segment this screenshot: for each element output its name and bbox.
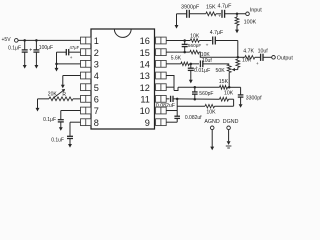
wire pin 11 xyxy=(166,98,169,100)
svg-text:Output: Output xyxy=(277,56,294,62)
svg-text:10K: 10K xyxy=(224,91,234,97)
svg-text:Input: Input xyxy=(250,8,262,14)
wire pin 12 xyxy=(166,86,174,88)
svg-text:0.1μF: 0.1μF xyxy=(8,46,21,52)
vertical from Y2 down through 0.082uf to pin 9 xyxy=(176,99,178,116)
svg-text:5: 5 xyxy=(94,83,99,93)
svg-text:+: + xyxy=(70,55,73,60)
capacitor 10uf pin14 row xyxy=(199,60,201,67)
wire pin 9 xyxy=(166,121,177,123)
svg-text:DGND: DGND xyxy=(223,119,239,125)
pot wiper arrow xyxy=(53,91,64,99)
row Y3 wire xyxy=(177,105,205,107)
svg-text:4.7μF: 4.7μF xyxy=(210,30,223,36)
wire pin 16 xyxy=(166,40,190,42)
svg-text:+: + xyxy=(218,15,221,20)
wire pin 15 xyxy=(166,51,190,53)
svg-text:13: 13 xyxy=(140,71,150,81)
svg-text:10uf: 10uf xyxy=(202,58,212,64)
wire 10K to 4.7uF xyxy=(199,40,211,42)
resistor 15K row Y1 xyxy=(220,85,228,89)
node dot pin3 xyxy=(55,63,58,65)
wire 3900pF to 15K xyxy=(189,13,206,15)
wire 4.7uF to corner down to output rail xyxy=(215,40,238,42)
wire +5V rail to pin 1 xyxy=(18,39,80,41)
svg-text:3900pF: 3900pF xyxy=(181,4,200,10)
node dot 5.6K/0.01uF xyxy=(190,63,193,65)
resistor 10K row Y3 xyxy=(205,104,215,108)
ground arrow under 100uF xyxy=(35,64,37,66)
wire node to pin 3 xyxy=(57,63,81,65)
svg-text:+: + xyxy=(29,47,32,53)
node dot row Y2 left xyxy=(173,98,177,100)
resistor 10K vertical below output node xyxy=(236,59,240,67)
capacitor 0.1uF on pin 7 xyxy=(61,110,81,112)
capacitor 0.1uF (supply) xyxy=(24,40,26,50)
resistor 4.7K output row xyxy=(238,56,245,58)
wire pin15 jog down to output rail xyxy=(199,52,238,57)
resistor 100K vertical xyxy=(236,14,238,17)
svg-text:7: 7 xyxy=(94,106,99,116)
svg-text:560pF: 560pF xyxy=(199,91,213,97)
potentiometer 50K vertical xyxy=(227,65,231,73)
node dot pin16/560pF xyxy=(183,39,186,42)
wire to Output terminal xyxy=(263,56,272,58)
wire 10uf to 50K pot top xyxy=(203,63,229,65)
wire pin 14 xyxy=(166,63,181,65)
capacitor 0.1uF on pin 8 xyxy=(70,121,81,123)
capacitor 4.7uF input top xyxy=(221,10,223,18)
ground arrow under 0.01uF xyxy=(190,79,192,81)
AGND ground arrow xyxy=(211,130,213,147)
wire 15K to 4.7uF xyxy=(216,13,221,15)
svg-text:4: 4 xyxy=(94,71,99,81)
560pF vertical row Y1 to Y2 xyxy=(194,87,196,92)
pin boxes left xyxy=(81,37,92,125)
svg-text:4.7K: 4.7K xyxy=(243,48,254,54)
node dot 560pF bottom xyxy=(194,98,197,101)
wire pin 13 down xyxy=(166,76,174,91)
terminal Input xyxy=(246,12,250,16)
capacitor 0.01uF vertical xyxy=(190,64,192,68)
svg-text:10K: 10K xyxy=(242,58,252,64)
svg-text:12: 12 xyxy=(140,83,150,93)
resistor 15K top xyxy=(206,12,216,16)
ground arrow pin 4 xyxy=(62,76,64,86)
pin boxes right xyxy=(156,37,167,125)
svg-text:0.1μF: 0.1μF xyxy=(43,117,56,123)
node dot 0.1uF tap xyxy=(23,39,26,42)
ground arrow pin7 cap xyxy=(60,122,62,128)
ground arrow pin6 pot xyxy=(37,98,39,100)
svg-text:15: 15 xyxy=(140,48,150,58)
node dot 50K bottom row Y1 xyxy=(228,86,231,89)
terminal Output xyxy=(272,56,276,60)
pin numbers right 16-9 xyxy=(140,36,150,128)
svg-text:5.6K: 5.6K xyxy=(171,56,182,62)
svg-text:100K: 100K xyxy=(244,20,257,26)
svg-text:AGND: AGND xyxy=(204,119,219,125)
resistor 10K pin15 row xyxy=(190,50,199,54)
560pF vertical between pin16 and pin15 xyxy=(184,41,186,45)
row Y2 wire xyxy=(177,98,219,100)
svg-text:3: 3 xyxy=(94,59,99,69)
svg-text:100μF: 100μF xyxy=(39,45,53,51)
svg-text:47μF: 47μF xyxy=(70,45,80,50)
wire pin2 cap to pin3 node xyxy=(56,52,58,64)
row Y1 wire xyxy=(178,86,220,88)
capacitor 0.082uF pin11 xyxy=(170,96,172,102)
svg-text:0.082uF: 0.082uF xyxy=(156,103,175,109)
ground arrow under 3300pf xyxy=(240,103,242,105)
capacitor 3300pf hanging from row Y1 xyxy=(240,87,242,95)
svg-text:15K: 15K xyxy=(206,4,216,10)
pin numbers left 1-8 xyxy=(94,36,99,128)
svg-text:6: 6 xyxy=(94,94,99,104)
svg-text:16: 16 xyxy=(140,36,150,46)
capacitor 3900pF xyxy=(186,10,188,18)
ground arrow pin8 cap xyxy=(69,139,71,145)
node dot 100uF tap xyxy=(35,39,38,42)
svg-text:10: 10 xyxy=(140,106,150,116)
resistor 5.6K xyxy=(181,62,190,66)
svg-text:8: 8 xyxy=(94,118,99,128)
capacitor 10uF output xyxy=(255,56,261,58)
ground arrow under 100K xyxy=(236,25,238,30)
svg-text:+: + xyxy=(206,43,209,48)
row Y2 corner down to Y3 xyxy=(229,98,234,100)
svg-text:0.01μF: 0.01μF xyxy=(194,68,210,74)
svg-text:1: 1 xyxy=(94,36,99,46)
node dot pin15/560pF xyxy=(183,51,186,54)
IC U1 16-pin DIP body xyxy=(91,29,155,129)
svg-text:560pF: 560pF xyxy=(188,43,201,48)
capacitor 100uF (supply) xyxy=(35,40,37,50)
svg-text:+: + xyxy=(256,61,259,66)
resistor 10K pin16 row xyxy=(190,39,199,43)
svg-text:10K: 10K xyxy=(206,109,216,115)
wire pin 4 xyxy=(63,75,81,77)
capacitor 4.7uF pin16 row xyxy=(212,37,214,45)
svg-text:9: 9 xyxy=(145,118,150,128)
svg-text:14: 14 xyxy=(140,59,150,69)
wire pin 10 xyxy=(166,110,177,112)
node dot input/100K xyxy=(236,13,239,16)
svg-text:11: 11 xyxy=(140,94,150,104)
capacitor 47uF on pin 2 xyxy=(69,51,81,53)
svg-text:2: 2 xyxy=(94,48,99,58)
resistor 10K row Y2 xyxy=(220,97,229,101)
node dot output rail xyxy=(237,56,240,59)
ground arrow under pin3 node xyxy=(56,64,58,68)
svg-text:10uf: 10uf xyxy=(258,48,269,54)
svg-text:0.082uf: 0.082uf xyxy=(185,115,202,121)
node dot 560pF top xyxy=(194,86,197,89)
svg-text:15K: 15K xyxy=(219,79,229,85)
svg-text:10K: 10K xyxy=(190,34,200,40)
svg-text:4.7μF: 4.7μF xyxy=(218,3,233,9)
svg-text:R: R xyxy=(62,92,66,98)
jog to row Y1 xyxy=(174,87,178,90)
ground arrow left of 3900pF xyxy=(177,13,187,15)
svg-text:50K: 50K xyxy=(216,68,226,74)
wire 4.7uF to input xyxy=(225,13,246,15)
ground arrow under 0.1uF xyxy=(24,64,26,66)
svg-text:20K: 20K xyxy=(48,91,58,97)
svg-text:0.1uF: 0.1uF xyxy=(51,138,64,144)
pot wiper arrow into 50K xyxy=(235,69,238,71)
svg-text:+5V: +5V xyxy=(2,37,12,43)
svg-text:3300pf: 3300pf xyxy=(246,95,262,101)
DGND ground (arrow + bars) xyxy=(228,130,230,142)
potentiometer 20K R on pin 6 xyxy=(73,98,81,100)
